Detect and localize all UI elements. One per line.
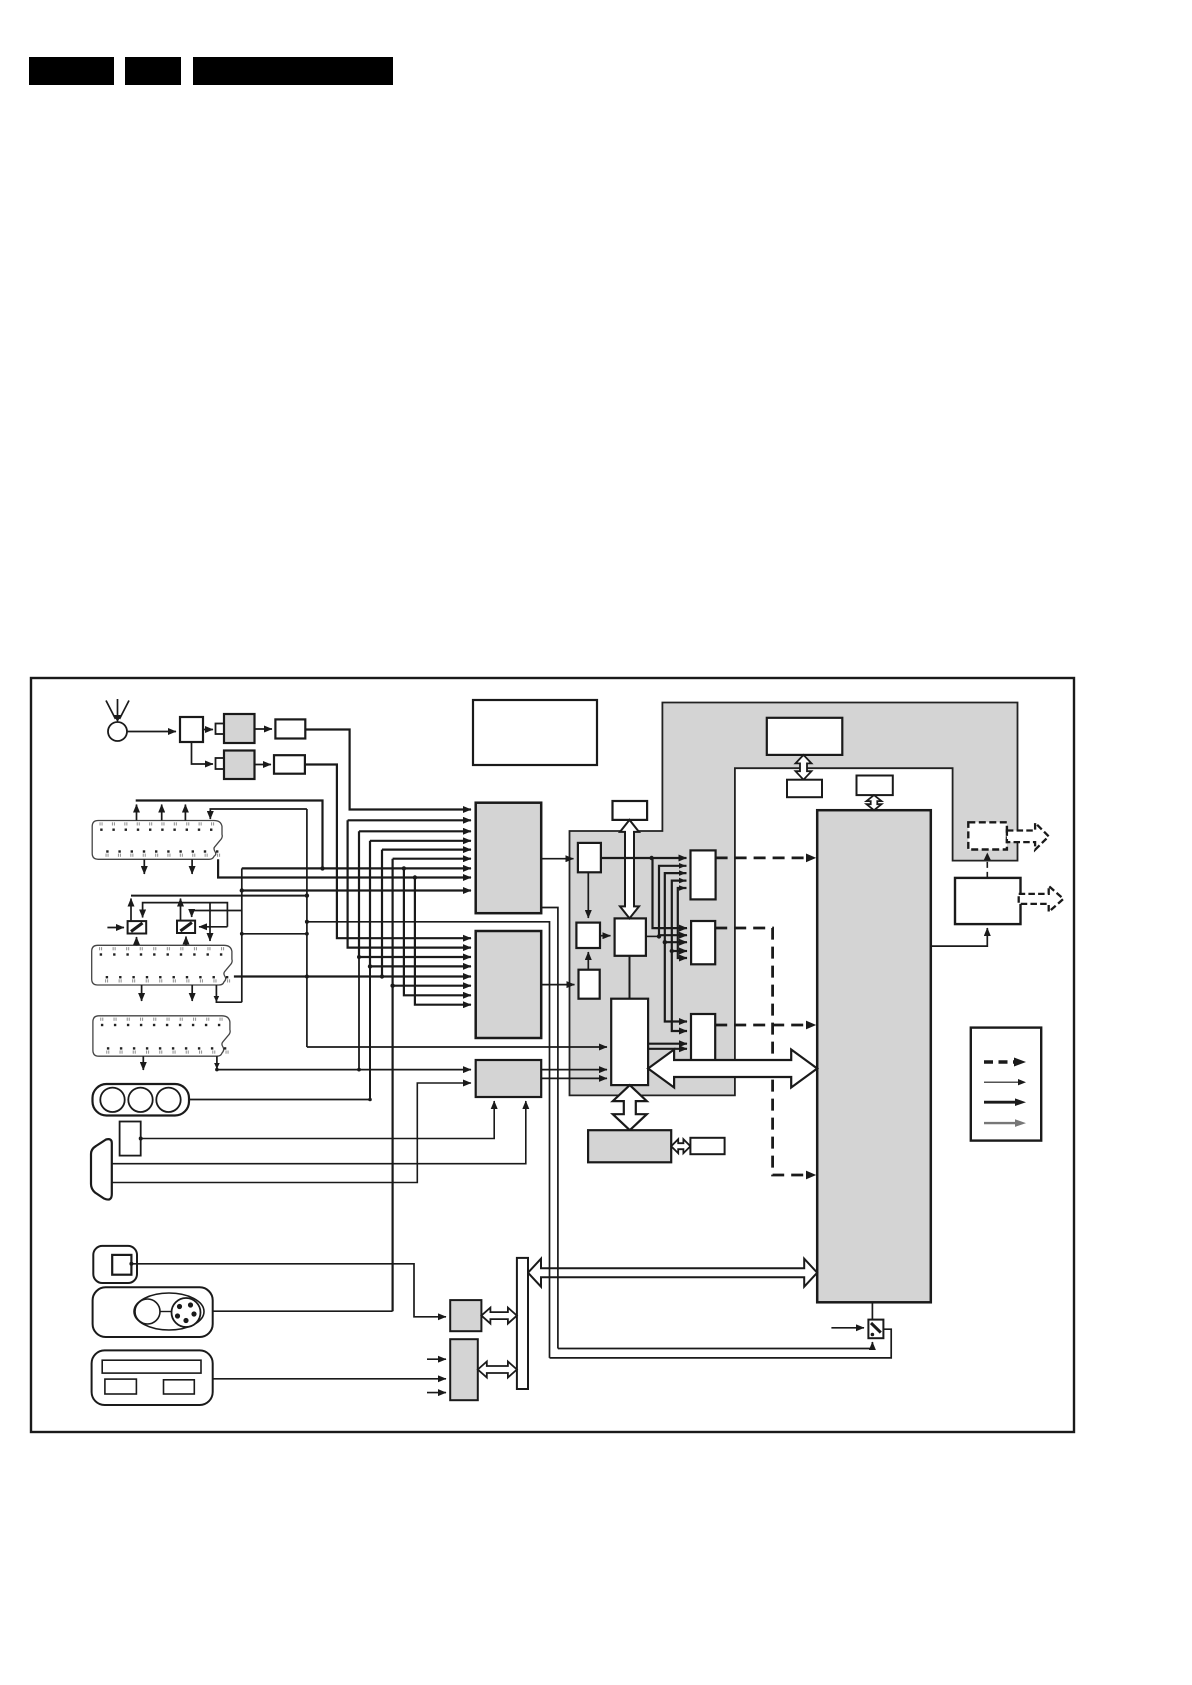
io2-bus arrow bbox=[478, 1362, 517, 1378]
dsp-ddr arrow bbox=[613, 1085, 647, 1130]
dsp out 2 bbox=[648, 1048, 687, 1050]
tuner 1 bbox=[224, 714, 255, 743]
bracket 2 bbox=[348, 820, 471, 947]
mini lattice 4 bbox=[672, 881, 687, 1031]
audio out 2 bbox=[541, 1077, 607, 1079]
mini lattice 5 bbox=[678, 888, 687, 958]
input 9 bbox=[242, 889, 471, 891]
i2c interface box bbox=[787, 780, 822, 798]
headphone loop verticals bbox=[307, 922, 550, 1358]
legend dashed arrow bbox=[984, 1060, 1016, 1063]
S2 riser bbox=[180, 899, 182, 921]
legend thin arrow bbox=[984, 1081, 1019, 1083]
sif to demod bbox=[587, 952, 589, 970]
diagram frame bbox=[31, 678, 1074, 1432]
scart2 pin arrows bbox=[136, 937, 138, 945]
scart1 top bus bbox=[136, 801, 323, 869]
switch box S1 bbox=[128, 921, 147, 933]
rca cinch connector bbox=[93, 1084, 190, 1116]
bus bar bbox=[517, 1258, 528, 1389]
legend box bbox=[971, 1028, 1041, 1141]
scart2 audio link bbox=[242, 933, 307, 935]
i2c arrow C-block bbox=[867, 795, 882, 810]
rca wire bbox=[189, 1099, 370, 1101]
svideo wire bbox=[213, 1310, 393, 1312]
dsp-block bus arrow bbox=[648, 1050, 817, 1088]
cvbs riser from rca bbox=[369, 966, 371, 1099]
legend heavy arrow bbox=[984, 1101, 1017, 1104]
dashed chroma path bbox=[715, 928, 812, 1175]
panel wire bbox=[213, 1378, 446, 1380]
tuner 2 connector bbox=[216, 758, 225, 769]
bracket 3 lower extension bbox=[358, 957, 360, 1070]
bracket 8 bbox=[415, 878, 471, 1005]
tuner control box bbox=[767, 718, 843, 755]
control panel bbox=[92, 1350, 213, 1405]
if amp box bbox=[578, 843, 601, 872]
mini lattice 2 bbox=[659, 866, 687, 935]
switch box S2 bbox=[177, 921, 195, 933]
redacted title bar 2 bbox=[125, 57, 181, 85]
SCART connector 1 bbox=[92, 821, 222, 860]
bracket 6 s-video riser bbox=[392, 859, 394, 1311]
scart1 pin up arrows bbox=[136, 805, 138, 821]
control box bbox=[615, 918, 646, 955]
S1 riser bbox=[130, 899, 132, 922]
mini lattice 3 bbox=[665, 873, 687, 1021]
switch loop lower bbox=[558, 1342, 873, 1349]
redacted title bar 3 bbox=[193, 57, 393, 85]
scart2 top down arrow bbox=[209, 903, 211, 941]
agc double arrow bbox=[620, 820, 639, 919]
headphone jack bbox=[91, 1139, 112, 1199]
ddr-flash arrow bbox=[671, 1139, 690, 1153]
IF box 1 bbox=[275, 719, 305, 738]
flash box bbox=[690, 1138, 724, 1154]
hip to if amp wire bbox=[541, 858, 573, 860]
audio in to sif bbox=[541, 984, 574, 986]
volume control bbox=[120, 1122, 141, 1156]
antenna bbox=[117, 699, 119, 717]
SCART connector 3 bbox=[93, 1016, 230, 1056]
io2 stub arrows bbox=[427, 1358, 446, 1360]
wire IF1 to video proc input 1 bbox=[305, 730, 471, 810]
redacted title bar 1 bbox=[29, 57, 114, 85]
wire block to F bbox=[931, 928, 988, 946]
wire splitter down to tuner 2 bbox=[192, 742, 214, 764]
switch return bbox=[550, 1329, 892, 1358]
splitter box bbox=[180, 717, 203, 742]
scart pin number marks bbox=[100, 822, 101, 825]
dashed audio path bbox=[715, 1024, 812, 1027]
svideo connector bbox=[93, 1287, 213, 1337]
legend gray arrow bbox=[984, 1122, 1017, 1124]
control-dsp link bbox=[629, 956, 631, 999]
dashed out arrow E bbox=[1007, 823, 1049, 850]
block to switch bbox=[871, 1302, 873, 1319]
SCART connector 2 bbox=[92, 945, 232, 985]
bracket 3 bbox=[359, 831, 471, 957]
io box 2 bbox=[450, 1339, 478, 1400]
scart2 bottom stubs bbox=[141, 985, 143, 1001]
scart2 cvbs to input bbox=[234, 975, 471, 977]
scart2 loop vertical bbox=[241, 868, 243, 1002]
control out bbox=[646, 935, 659, 937]
tuner agc box bbox=[613, 801, 648, 820]
io1-bus arrow bbox=[481, 1308, 517, 1324]
sync proc box bbox=[691, 850, 716, 899]
bus above switches bbox=[131, 895, 307, 897]
audio return vertical bbox=[306, 809, 308, 1047]
arrow into S2 bbox=[199, 926, 227, 928]
headphone wire 1 bbox=[112, 1101, 526, 1164]
wire IF2 to input bbox=[305, 765, 471, 939]
audio out box bbox=[691, 1014, 715, 1062]
volume wire bbox=[139, 1137, 143, 1141]
dashed video to main block bbox=[716, 857, 812, 860]
title box bbox=[473, 700, 597, 765]
demod box bbox=[576, 923, 600, 948]
wire tuner1 to IF box bbox=[255, 728, 273, 730]
S2 top feed bbox=[192, 911, 242, 918]
scart1 bottom stubs bbox=[143, 859, 145, 874]
IF box 2 bbox=[274, 755, 305, 774]
bracket 7 bbox=[404, 868, 471, 995]
output stage box F bbox=[955, 878, 1021, 924]
scart3 bottom stub bbox=[142, 1056, 144, 1070]
tuner 2 bbox=[224, 751, 255, 780]
dashed option box bbox=[968, 822, 1007, 849]
if amp to demod bbox=[587, 872, 589, 918]
bracket 5 bbox=[381, 850, 383, 977]
arrow into S1 bbox=[107, 927, 124, 929]
sif box bbox=[579, 970, 600, 999]
mini lattice 1 bbox=[653, 858, 688, 928]
dashed out arrow G bbox=[1019, 886, 1064, 912]
wire tuner2 to IF box 2 bbox=[255, 764, 272, 766]
if out wire bbox=[601, 857, 687, 859]
dsp out 1 bbox=[648, 1043, 687, 1045]
video input proc 2 bbox=[476, 931, 542, 1038]
gray processing region bbox=[570, 703, 1018, 1096]
ir receiver bbox=[93, 1246, 137, 1283]
eeprom box bbox=[857, 776, 893, 796]
scart1 pin20 wire bbox=[218, 859, 471, 877]
demod to control bbox=[600, 935, 611, 937]
wire into scart1 pin bbox=[210, 809, 307, 819]
scart3 audio wire bbox=[217, 1056, 471, 1069]
main video processor block U1 bbox=[817, 810, 931, 1302]
audio dsp block bbox=[611, 999, 648, 1085]
ir wire bbox=[129, 1262, 133, 1266]
audio processor bbox=[476, 1060, 542, 1097]
audio out 1 bbox=[541, 1069, 607, 1071]
ddr box bbox=[588, 1130, 671, 1162]
scart2 pin wire loop bbox=[216, 985, 241, 1002]
io box 1 bbox=[450, 1300, 481, 1331]
bracket 4 bbox=[370, 841, 471, 967]
headphone wire 2 bbox=[112, 1083, 471, 1183]
i2c arrow A-B bbox=[796, 755, 812, 780]
control bus arrow bbox=[528, 1259, 817, 1287]
wire to tuner 1 bbox=[203, 729, 213, 731]
colour dec box bbox=[691, 921, 715, 964]
S2 feed loop bbox=[143, 903, 228, 927]
wire antenna to splitter bbox=[127, 731, 176, 733]
ir inner bbox=[112, 1255, 131, 1275]
audio return to dsp bbox=[307, 1046, 607, 1048]
headphone switch bbox=[868, 1320, 883, 1339]
switch stub arrow bbox=[831, 1327, 864, 1329]
video input proc 1 bbox=[476, 803, 542, 914]
dashed link D-F bbox=[986, 854, 988, 878]
tuner 1 connector bbox=[216, 724, 225, 735]
